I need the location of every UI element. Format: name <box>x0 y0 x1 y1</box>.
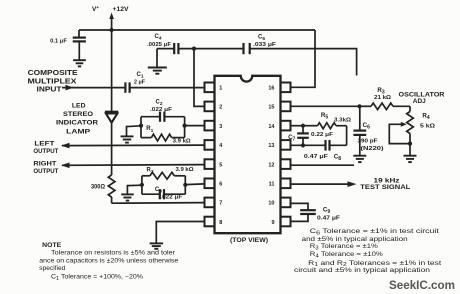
svg-text:2 μF: 2 μF <box>134 79 146 85</box>
pin 15 box <box>281 102 291 112</box>
resistor R5 3.3k <box>303 125 318 127</box>
svg-text:(TOP VIEW): (TOP VIEW) <box>230 238 268 244</box>
IC U1 16-pin DIP (top view) <box>215 76 281 233</box>
svg-text:7: 7 <box>219 201 222 207</box>
svg-text:12: 12 <box>268 162 274 168</box>
svg-text:5: 5 <box>219 162 222 168</box>
svg-text:2: 2 <box>219 105 222 111</box>
capacitor C9 0.47uF across pins 9-10 <box>291 203 309 210</box>
capacitor C6 390pF <box>359 106 361 130</box>
ground (0.1uF) <box>73 59 86 61</box>
svg-text:0.1 μF: 0.1 μF <box>50 39 67 45</box>
resistor R1 3.9k <box>141 137 151 139</box>
wire: C5 right then down toward pin 15 area <box>250 49 357 76</box>
wiper arm R4 <box>389 124 410 143</box>
capacitor C5 .033uF <box>242 43 244 54</box>
pin 13 box <box>281 140 291 150</box>
capacitor C4 .0025uF <box>157 48 174 50</box>
svg-text:specified: specified <box>39 265 66 272</box>
wire: network to pin 6 <box>185 183 204 186</box>
svg-text:INPUT: INPUT <box>37 87 63 94</box>
svg-text:0.47 μF: 0.47 μF <box>304 154 329 160</box>
pin 10 box <box>281 198 291 208</box>
pin 12 box <box>281 159 291 169</box>
svg-text:8: 8 <box>219 220 222 226</box>
svg-text:15: 15 <box>268 105 274 111</box>
svg-text:ance on capacitors is ±20% unl: ance on capacitors is ±20% unless otherw… <box>39 257 179 264</box>
svg-text:MULTIPLEX: MULTIPLEX <box>28 78 77 85</box>
wire: node to pin 2 <box>194 49 205 107</box>
ground (C6) <box>353 155 366 157</box>
left bar + node <box>141 176 143 194</box>
LED stereo indicator lamp D1 <box>105 111 118 113</box>
svg-text:0.47 μF: 0.47 μF <box>317 216 341 222</box>
svg-text:10: 10 <box>268 201 274 207</box>
svg-text:1: 1 <box>219 86 222 92</box>
svg-text:INDICATOR: INDICATOR <box>56 120 98 127</box>
wire: 300 ohm to pin 7 <box>112 202 205 205</box>
power V+ arrow <box>111 16 113 30</box>
potentiometer R4 5k <box>409 106 411 111</box>
pin 14 box <box>281 121 291 131</box>
svg-text:13: 13 <box>268 143 274 149</box>
pin 5 box <box>205 159 215 169</box>
pin 2 box <box>205 102 215 112</box>
resistor R2 3.9k <box>142 175 150 177</box>
svg-text:LED: LED <box>72 102 86 109</box>
node: oscillator <box>357 104 361 108</box>
ground (R1/C2) <box>127 126 142 136</box>
svg-text:OUTPUT: OUTPUT <box>33 168 59 175</box>
right bar + node <box>184 117 186 138</box>
svg-text:14: 14 <box>268 124 275 130</box>
svg-text:STEREO: STEREO <box>63 111 93 118</box>
svg-text:16: 16 <box>268 86 274 92</box>
svg-text:COMPOSITE: COMPOSITE <box>28 70 78 77</box>
svg-text:.022 μF: .022 μF <box>160 195 183 201</box>
wire: pin 12 stub <box>291 164 355 166</box>
svg-text:300Ω: 300Ω <box>91 184 105 190</box>
wire: pin 15 to oscillator node <box>291 105 360 107</box>
capacitor C8 0.47uF <box>324 140 326 151</box>
capacitor C1 2uF <box>124 82 126 92</box>
right bar <box>346 126 348 146</box>
svg-text:.022 μF: .022 μF <box>150 107 173 113</box>
pin 7 box <box>205 198 215 208</box>
svg-text:21 kΩ: 21 kΩ <box>374 95 391 101</box>
wire: V+ rail <box>79 29 315 31</box>
wire: network to pin 3 <box>185 125 205 127</box>
wire: LED branch from rail <box>111 30 113 112</box>
svg-text:ADJ: ADJ <box>413 98 427 105</box>
svg-text:LAMP: LAMP <box>66 128 91 135</box>
composite multiplex input arrow <box>62 87 125 89</box>
svg-text:SeekIC.com: SeekIC.com <box>389 280 455 292</box>
svg-text:0.22 μF: 0.22 μF <box>311 132 334 138</box>
pin 9 box <box>281 217 291 227</box>
wire: pin 14 <box>291 125 304 127</box>
pin 8 box <box>205 217 215 227</box>
ground (R4) <box>409 144 411 156</box>
svg-text:LEFT: LEFT <box>34 140 55 147</box>
svg-text:9: 9 <box>271 220 274 226</box>
svg-text:Tolerance on resistors is ±5%: Tolerance on resistors is ±5% and toler <box>51 250 175 257</box>
svg-text:NOTE: NOTE <box>42 242 62 249</box>
svg-text:circuit and ±5% in typical app: circuit and ±5% in typical application <box>294 267 431 274</box>
capacitor C2 .022uF <box>141 116 160 118</box>
pin 1 box <box>205 83 215 93</box>
pin 6 box <box>205 179 215 189</box>
svg-text:+12V: +12V <box>113 6 130 13</box>
resistor 300 ohm <box>108 175 115 197</box>
right bar + node <box>184 176 186 194</box>
svg-text:and ±5% in typical application: and ±5% in typical application <box>302 236 409 243</box>
svg-text:(N220): (N220) <box>361 146 384 152</box>
wire: rail down to pin 16 <box>291 30 316 87</box>
ground (C4) <box>148 67 167 69</box>
wire: pin 13 <box>291 144 326 146</box>
19kHz test signal arrow (pin 11) <box>291 183 353 185</box>
svg-text:.033 μF: .033 μF <box>253 42 277 48</box>
svg-text:11: 11 <box>269 182 275 188</box>
right output arrow (pin 5) <box>62 164 205 167</box>
svg-text:3.9 kΩ: 3.9 kΩ <box>176 167 195 173</box>
capacitor C3 .022uF <box>142 193 160 195</box>
resistor R3 21k <box>360 105 372 107</box>
svg-text:TEST SIGNAL: TEST SIGNAL <box>360 185 410 191</box>
svg-text:5 kΩ: 5 kΩ <box>420 124 436 130</box>
capacitor 0.1uF bypass <box>78 30 80 38</box>
svg-text:390 pF: 390 pF <box>358 138 379 144</box>
svg-text:.0025 μF: .0025 μF <box>147 42 172 48</box>
svg-text:6: 6 <box>219 182 222 188</box>
svg-text:19 kHz: 19 kHz <box>374 178 400 184</box>
wire: C1 to pin 1 <box>130 87 205 89</box>
left bar + node <box>140 117 142 138</box>
svg-text:3.9 kΩ: 3.9 kΩ <box>173 139 192 145</box>
wire: pin 8 to ground <box>156 222 204 244</box>
svg-text:OUTPUT: OUTPUT <box>33 148 59 155</box>
capacitor C7 0.22uF <box>302 126 304 134</box>
pin 3 box <box>205 121 215 131</box>
pin 4 box <box>205 140 215 150</box>
svg-text:3.3kΩ: 3.3kΩ <box>334 118 352 124</box>
wire: C4 to C5 with node <box>178 48 243 50</box>
ground (R2/C3) <box>127 185 141 194</box>
svg-text:3: 3 <box>219 124 222 130</box>
pin 11 box <box>281 179 291 189</box>
svg-text:RIGHT: RIGHT <box>33 160 57 167</box>
pin 16 box <box>281 83 291 93</box>
node: pin2 coupling junction <box>192 47 196 51</box>
ground (pin 8) <box>150 242 164 244</box>
left output arrow (pin 4) <box>62 144 205 147</box>
